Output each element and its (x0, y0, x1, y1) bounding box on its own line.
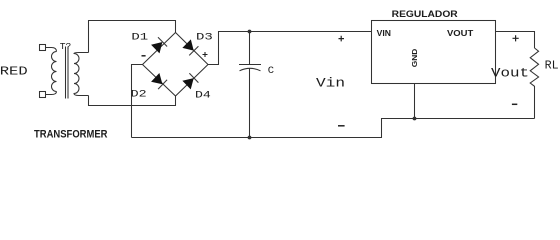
svg-text:TRANSFORMER: TRANSFORMER (34, 129, 108, 141)
sign minus output (512, 103, 517, 105)
junction dot gnd (413, 117, 417, 121)
svg-text:T?: T? (60, 41, 71, 52)
capacitor C bottom lead (249, 68, 251, 137)
diode D4 (182, 73, 198, 89)
svg-text:D3: D3 (196, 32, 213, 44)
sign plus bridge right (203, 52, 208, 57)
terminal square top (40, 45, 46, 51)
wire right node to regulator VIN (208, 32, 372, 65)
bridge diamond (143, 33, 209, 97)
junction dot cap bottom (248, 136, 252, 140)
transformer T? primary winding (52, 52, 57, 92)
wire secondary bottom to bridge bottom (89, 96, 176, 106)
wire left node stub down (132, 65, 143, 138)
wire primary top lead (46, 48, 57, 52)
regulator box U1 (372, 21, 496, 84)
svg-text:REGULADOR: REGULADOR (392, 9, 459, 19)
svg-text:Vin: Vin (316, 75, 345, 90)
svg-text:D2: D2 (131, 89, 147, 101)
capacitor C top plate (239, 64, 261, 66)
sign minus input (338, 125, 345, 127)
diode D1 (151, 37, 167, 53)
svg-text:RED: RED (0, 65, 28, 79)
diode D3 (182, 39, 198, 55)
terminal square bottom (40, 92, 46, 98)
diode D2 (151, 73, 167, 89)
wire secondary top to bridge top (89, 21, 176, 53)
svg-text:D4: D4 (195, 89, 211, 101)
wire VOUT to resistor (496, 32, 535, 49)
sign plus input (339, 36, 345, 42)
sign plus output (513, 35, 519, 41)
resistor RL zigzag (530, 48, 538, 119)
capacitor C top lead (249, 32, 251, 65)
svg-text:RL: RL (545, 59, 559, 72)
svg-text:Vout: Vout (491, 66, 529, 80)
svg-text:C: C (268, 65, 274, 77)
svg-text:VOUT: VOUT (447, 28, 474, 38)
wire bottom rail (132, 119, 535, 138)
junction dot cap top (248, 30, 252, 34)
svg-text:D1: D1 (131, 32, 148, 44)
transformer core lines (66, 47, 69, 99)
svg-text:GND: GND (410, 48, 419, 67)
transformer secondary winding (74, 53, 89, 96)
wire regulator GND lead (414, 84, 416, 119)
capacitor C curved plate (240, 68, 261, 71)
wire primary bottom lead (46, 92, 57, 95)
svg-text:VIN: VIN (377, 28, 391, 38)
sign minus bridge left (142, 55, 146, 57)
